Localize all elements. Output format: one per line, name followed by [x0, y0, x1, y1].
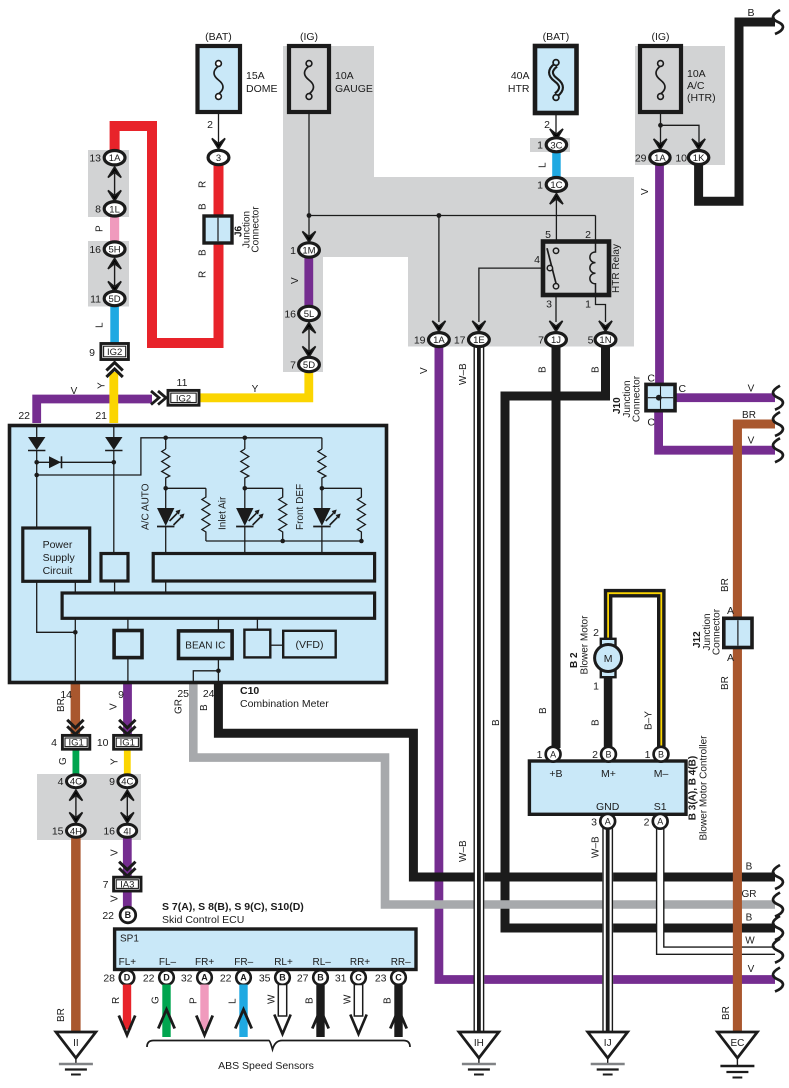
wire BEAN IC to pin 24 [217, 659, 219, 685]
shade: 1A-1L chain [88, 150, 129, 217]
svg-text:5L: 5L [304, 309, 315, 320]
svg-text:A: A [727, 652, 734, 664]
svg-text:V: V [640, 188, 651, 195]
wire: blue L from 3C to 1C [552, 150, 561, 179]
svg-text:3: 3 [546, 299, 552, 311]
svg-text:IA3: IA3 [120, 880, 134, 891]
svg-text:28: 28 [103, 973, 115, 985]
shade: central band [283, 177, 634, 257]
chevrons above IG1-4 [67, 720, 83, 735]
svg-text:FR+: FR+ [195, 957, 214, 968]
relay switch [547, 248, 559, 289]
svg-text:25: 25 [177, 688, 189, 700]
wire lower tap [37, 438, 322, 475]
svg-text:2: 2 [207, 119, 213, 131]
svg-text:L: L [538, 162, 549, 168]
connector 4C-4 [58, 775, 86, 788]
wire diode2 to square [113, 451, 115, 554]
svg-text:17: 17 [454, 335, 466, 347]
svg-text:GND: GND [596, 801, 620, 813]
svg-text:L: L [95, 322, 106, 328]
IG1-10 box [97, 735, 141, 749]
VFD box [283, 631, 336, 658]
wire bus to pin 14 [74, 618, 76, 684]
wire led1 to rect1 [165, 527, 167, 554]
wire square1 bottom to bus [114, 581, 116, 593]
wire: black B from meter pin24 to right edge [218, 684, 775, 877]
junction connector J12 [724, 618, 752, 647]
wire: purple V from J10 to right edge [675, 393, 775, 402]
sensor stub RL+ white [274, 985, 290, 1035]
wire tap to parallel resistor1 [166, 488, 210, 541]
svg-text:Connector: Connector [712, 608, 723, 655]
wire relay pin1 to 1N [596, 295, 606, 322]
wire 1C to relay pin5 [555, 197, 557, 242]
IA3 box [103, 877, 141, 891]
wire square2 to pin 9 [127, 658, 129, 684]
sensor stub FR+ pink [196, 985, 212, 1036]
svg-text:16: 16 [103, 826, 115, 838]
svg-text:V: V [419, 367, 430, 374]
square1 [101, 554, 128, 582]
svg-text:22: 22 [220, 973, 232, 985]
wire rect1 bottom to bus [165, 581, 167, 593]
svg-text:B: B [746, 862, 753, 873]
chevrons IG2-11 [151, 391, 166, 405]
wire psc bottom to bus [74, 581, 76, 593]
shade: 5H-5D chain [88, 241, 129, 307]
svg-text:11: 11 [90, 294, 101, 306]
svg-text:HTR: HTR [508, 83, 530, 95]
svg-text:(BAT): (BAT) [205, 31, 232, 43]
svg-text:B: B [305, 997, 316, 1004]
svg-text:HTR Relay: HTR Relay [611, 244, 622, 293]
svg-text:1A: 1A [433, 335, 445, 346]
svg-text:C: C [395, 973, 402, 983]
wire pin21 to diode2 [113, 427, 115, 437]
svg-text:V: V [110, 849, 121, 856]
connector 1K [675, 151, 708, 165]
svg-text:Y: Y [252, 384, 259, 395]
wire: purple V from 1A-19 down and right to edge [439, 346, 775, 980]
svg-text:4C: 4C [70, 777, 82, 788]
wire fuse DOME to node 3 [218, 112, 220, 146]
diode pin21 [105, 437, 122, 451]
ground EC [717, 1032, 757, 1078]
sensor stub RR- black [390, 985, 406, 1038]
wire: gray GR from meter pin25 to right edge [193, 684, 775, 905]
svg-text:19: 19 [414, 335, 426, 347]
controller top pins [537, 747, 561, 762]
svg-text:15: 15 [52, 826, 64, 838]
svg-text:C: C [355, 973, 362, 983]
wire: white W from S1 to right edge [660, 828, 775, 951]
svg-text:W: W [343, 994, 354, 1004]
svg-text:1A: 1A [654, 153, 666, 164]
svg-text:A: A [605, 817, 611, 827]
svg-text:B: B [317, 973, 324, 983]
svg-text:Blower Motor Controller: Blower Motor Controller [699, 735, 710, 841]
wire: black B from blower motor to M+ [604, 674, 613, 747]
IG1-4 box [51, 735, 90, 749]
ground IJ [588, 1032, 628, 1075]
svg-text:2: 2 [644, 817, 650, 829]
wire relay pin3 to 1J [555, 295, 557, 322]
svg-text:A: A [657, 817, 663, 827]
svg-text:B: B [605, 749, 611, 759]
svg-text:3: 3 [216, 153, 221, 164]
connector 5D-7 [290, 357, 319, 371]
svg-text:4C: 4C [121, 777, 133, 788]
svg-text:V: V [290, 277, 301, 284]
wire node joining diodes [37, 461, 114, 463]
svg-text:2: 2 [593, 627, 599, 639]
svg-text:IG1: IG1 [120, 738, 135, 749]
svg-text:IH: IH [474, 1038, 484, 1049]
shade: A/C fuse patch [635, 46, 725, 165]
svg-text:22: 22 [143, 973, 155, 985]
wire: purple V from 4I to IA3 [123, 838, 132, 878]
svg-text:10: 10 [97, 737, 109, 749]
svg-text:4I: 4I [123, 826, 131, 837]
svg-text:V: V [748, 436, 755, 447]
svg-text:G: G [151, 996, 162, 1004]
svg-text:B: B [746, 913, 753, 924]
svg-text:8: 8 [95, 204, 101, 216]
svg-text:ABS Speed Sensors: ABS Speed Sensors [218, 1060, 314, 1072]
fuse 40A HTR [508, 31, 577, 113]
svg-text:4: 4 [534, 254, 540, 266]
svg-text:(IG): (IG) [300, 31, 318, 43]
connector 5H [89, 242, 125, 256]
svg-text:Skid Control ECU: Skid Control ECU [162, 914, 244, 926]
svg-text:W–B: W–B [458, 363, 469, 385]
svg-text:RL–: RL– [313, 957, 332, 968]
svg-text:11: 11 [177, 377, 188, 389]
svg-text:IG2: IG2 [176, 394, 191, 405]
wire node to 1A-19 [438, 216, 440, 323]
svg-text:B: B [538, 707, 549, 714]
svg-text:(BAT): (BAT) [543, 31, 570, 43]
svg-text:5: 5 [588, 335, 594, 347]
svg-text:27: 27 [297, 973, 309, 985]
controller bottom pins [591, 814, 615, 829]
wire bus to square3 [256, 618, 258, 629]
svg-text:B–Y: B–Y [644, 711, 655, 730]
fuse 15A DOME [198, 31, 278, 112]
svg-text:4: 4 [58, 776, 64, 788]
wire fuse A/C to 1A and 1K [661, 112, 700, 146]
svg-text:FL–: FL– [159, 957, 177, 968]
svg-text:40A: 40A [511, 70, 530, 82]
node dots meter [34, 436, 363, 674]
svg-text:4: 4 [51, 737, 57, 749]
svg-text:1L: 1L [109, 204, 120, 215]
wire led2 to rect1 [244, 527, 246, 554]
svg-text:1: 1 [585, 299, 591, 311]
svg-text:3: 3 [591, 817, 597, 829]
connector 4C-9 [109, 775, 137, 788]
connector 5D-11 [90, 291, 125, 305]
svg-text:B: B [279, 973, 286, 983]
wire: yellow from IG2-9 to meter pin21 [109, 372, 118, 423]
svg-text:D: D [163, 973, 170, 983]
svg-text:+B: +B [549, 768, 562, 780]
svg-text:(IG): (IG) [651, 31, 669, 43]
wire fuse HTR to 3C [555, 113, 557, 141]
junction connector J10 [646, 384, 675, 410]
svg-text:5D: 5D [109, 294, 121, 305]
wire bus to BEAN IC [217, 618, 219, 631]
LED2 Inlet Air [236, 508, 264, 527]
connector 3C [537, 138, 566, 152]
square2 [114, 631, 142, 658]
continuation squiggles right edge [773, 10, 783, 34]
shade: 3C patch [530, 138, 570, 152]
svg-text:9: 9 [118, 689, 124, 701]
junction arrows 4C-4H [69, 790, 82, 801]
svg-text:D: D [124, 973, 131, 983]
wire tap to parallel resistor3 [322, 488, 366, 541]
IG2-11 box [168, 390, 199, 405]
connector 1J-7 [538, 333, 566, 347]
svg-text:22: 22 [102, 910, 114, 922]
wire: purple V from IA3 to skid ECU pin22 [123, 890, 132, 908]
wire led3 to rect1 [321, 527, 323, 554]
junction arrows 4C-4I [121, 790, 134, 801]
diode pin22 [28, 437, 45, 451]
svg-text:W–B: W–B [458, 840, 469, 862]
wire fuse GAUGE to 1M [308, 112, 310, 240]
svg-text:FL+: FL+ [119, 957, 137, 968]
svg-text:V: V [748, 384, 755, 395]
connector 1A-13 [89, 151, 125, 165]
wire pin22 to diode [36, 427, 38, 437]
svg-text:1M: 1M [302, 246, 315, 257]
ground IH [459, 1032, 499, 1075]
BEAN IC box [179, 631, 233, 659]
junction connector J6 [204, 216, 232, 243]
svg-text:3C: 3C [550, 140, 562, 151]
wire parallel resistor bottoms [206, 540, 362, 542]
svg-text:BR: BR [720, 676, 731, 690]
chevrons below IG2-9 [106, 363, 122, 378]
rect1 long [153, 554, 374, 582]
svg-text:Circuit: Circuit [43, 565, 73, 577]
wire relay pin4 to 1E [479, 268, 543, 322]
svg-text:B: B [198, 203, 209, 210]
svg-text:16: 16 [284, 309, 296, 321]
svg-text:22: 22 [18, 410, 30, 422]
svg-text:SP1: SP1 [120, 934, 139, 945]
wire: pink P from 1L to 5H [110, 214, 119, 243]
wire: purple V from meter pin9 to IG1-10 [123, 684, 132, 735]
svg-text:BR: BR [721, 1006, 732, 1020]
connector 4I [103, 824, 136, 837]
svg-text:29: 29 [635, 153, 647, 165]
wire: purple V from J10 down to right edge [659, 410, 775, 450]
svg-text:9: 9 [89, 347, 95, 359]
svg-text:4H: 4H [70, 826, 82, 837]
wire branch to pin 25 [193, 671, 218, 684]
connector 1L [95, 202, 125, 216]
wire: red from fuse DOME via J6 to 1A [115, 126, 219, 343]
svg-text:R: R [198, 181, 209, 188]
svg-text:B: B [747, 7, 754, 19]
svg-text:7: 7 [538, 335, 544, 347]
sensor stub RL- black [312, 985, 328, 1038]
svg-text:C10: C10 [240, 685, 259, 697]
svg-text:1A: 1A [109, 153, 121, 164]
wire horizontal to relay pin2 [309, 215, 596, 217]
wire resistor chain2 [241, 438, 249, 508]
LED1 A/C AUTO [157, 508, 185, 527]
svg-text:FR–: FR– [234, 957, 253, 968]
svg-text:2: 2 [592, 749, 598, 761]
svg-text:Connector: Connector [251, 206, 262, 253]
svg-text:B: B [491, 719, 502, 726]
connector 4H [52, 824, 85, 837]
node 3 [208, 150, 229, 164]
wire: brown BR from meter pin14 to IG1 [71, 684, 81, 735]
svg-text:C: C [679, 383, 687, 395]
svg-text:1E: 1E [473, 335, 485, 346]
ECU pin circles [103, 970, 134, 985]
svg-text:EC: EC [730, 1038, 744, 1049]
ground II [56, 1032, 96, 1075]
arrows into row connectors [432, 321, 445, 332]
wire: black B from 1N down to right edge [505, 346, 775, 928]
svg-text:1C: 1C [550, 180, 562, 191]
svg-text:S 7(A), S 8(B), S 9(C), S10(D): S 7(A), S 8(B), S 9(C), S10(D) [162, 901, 304, 913]
svg-text:R: R [111, 997, 122, 1004]
wire psc down jog to pin14 line [37, 581, 76, 632]
svg-text:M+: M+ [601, 768, 616, 780]
svg-text:BR: BR [56, 698, 67, 712]
svg-text:P: P [95, 225, 106, 232]
skid control ECU box [115, 929, 416, 970]
svg-text:BEAN IC: BEAN IC [185, 641, 225, 652]
ABS brace [147, 1041, 410, 1050]
svg-text:9: 9 [109, 776, 115, 788]
svg-text:5D: 5D [303, 360, 315, 371]
wire: brown BR from right edge via J12 to ground EC [737, 424, 775, 1032]
square3 [244, 630, 270, 658]
svg-text:RR+: RR+ [350, 957, 370, 968]
svg-text:B: B [198, 249, 209, 256]
sensor stub RR+ white [350, 985, 366, 1035]
svg-text:1: 1 [290, 245, 296, 257]
svg-text:A: A [240, 973, 247, 983]
svg-text:V: V [109, 703, 120, 710]
rect2 bus [62, 593, 375, 618]
svg-text:1K: 1K [693, 153, 705, 164]
fuse 10A A/C HTR [640, 31, 716, 112]
wire: purple V horizontal into meter pin22 [37, 399, 152, 423]
shade: 4C-4H 4C-4I chain [37, 774, 141, 840]
svg-text:Y: Y [110, 758, 121, 765]
svg-text:1: 1 [537, 140, 543, 152]
svg-text:7: 7 [103, 879, 109, 891]
connector 1M [290, 243, 319, 257]
junction arrows 1A-1L [108, 167, 121, 178]
chevrons above IA3 [119, 862, 135, 877]
shade: 5L-5D strip [283, 257, 323, 372]
svg-text:Supply: Supply [43, 552, 76, 564]
wire: black B from 1K to top edge [699, 22, 775, 201]
sensor stub FL+ red [119, 985, 135, 1036]
shade: relay block [408, 257, 634, 347]
svg-text:A: A [550, 749, 556, 759]
wire bus to square2 [127, 618, 129, 630]
svg-text:V: V [748, 964, 755, 975]
connector 5L [284, 306, 319, 320]
svg-text:C: C [647, 373, 655, 385]
svg-text:GAUGE: GAUGE [335, 83, 373, 95]
svg-text:M–: M– [654, 768, 669, 780]
svg-text:V: V [110, 895, 121, 902]
svg-text:RR–: RR– [391, 957, 411, 968]
svg-text:Front DEF: Front DEF [295, 484, 306, 530]
svg-text:35: 35 [259, 973, 271, 985]
svg-text:Combination Meter: Combination Meter [240, 698, 329, 710]
arrow up into 1C [550, 194, 563, 205]
wire: black B from 1J to blower controller +B [552, 346, 561, 748]
svg-text:15A: 15A [246, 70, 265, 82]
svg-text:B: B [125, 910, 132, 920]
wire diode1 to power supply circuit [36, 451, 38, 529]
svg-text:21: 21 [95, 410, 107, 422]
svg-text:7: 7 [290, 360, 296, 372]
shade: gauge fuse strip [283, 46, 374, 177]
svg-text:2: 2 [585, 229, 591, 241]
svg-text:16: 16 [89, 244, 101, 256]
svg-text:M: M [604, 653, 613, 665]
svg-text:P: P [189, 997, 200, 1004]
combination meter C10 box [10, 426, 387, 683]
svg-text:B: B [538, 366, 549, 373]
svg-text:Inlet Air: Inlet Air [218, 496, 229, 530]
svg-text:B: B [591, 719, 602, 726]
wire tap to parallel resistor2 [245, 488, 287, 541]
svg-text:S1: S1 [654, 801, 667, 813]
wire: black-yellow B-Y from blower motor to M- [608, 593, 661, 747]
svg-text:10: 10 [675, 153, 687, 165]
wire: yellow from 5D to IG2-11 [199, 370, 309, 398]
connector 1A-29 [635, 151, 670, 165]
junction arrows 5H-5D [108, 258, 121, 269]
svg-text:13: 13 [89, 153, 101, 165]
svg-text:B: B [591, 366, 602, 373]
junction arrows 5L-5D [302, 323, 315, 334]
svg-text:BR: BR [720, 578, 731, 592]
connector 1A-19 [414, 333, 449, 347]
svg-text:B 3(A), B 4(B): B 3(A), B 4(B) [688, 756, 699, 820]
svg-text:1: 1 [537, 749, 543, 761]
wire resistor chain3 [318, 438, 326, 508]
svg-text:(HTR): (HTR) [687, 92, 716, 104]
wire square3 to VFD [270, 644, 283, 646]
blower motor controller box [529, 761, 686, 814]
svg-text:GR: GR [174, 699, 185, 714]
power supply circuit box [23, 528, 90, 581]
svg-text:A: A [201, 973, 208, 983]
svg-text:24: 24 [203, 688, 215, 700]
svg-text:A/C AUTO: A/C AUTO [141, 483, 152, 530]
connector 1N-5 [588, 333, 616, 347]
svg-text:IJ: IJ [604, 1038, 612, 1049]
LED3 Front DEF [313, 508, 341, 527]
